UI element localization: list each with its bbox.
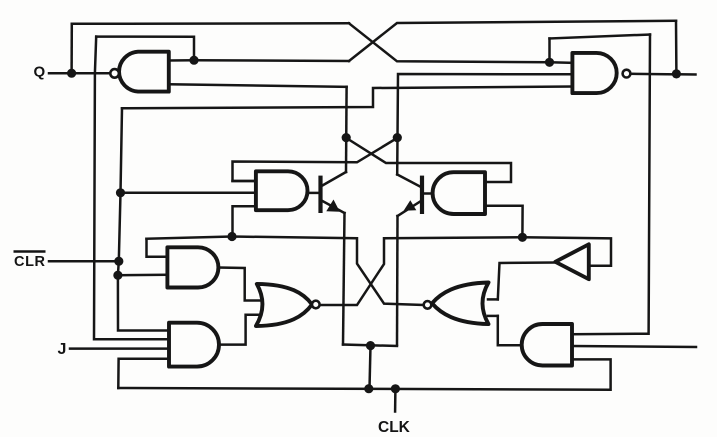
node dot left collector	[342, 133, 351, 142]
wire cross diagonal right-to-left	[233, 138, 398, 181]
svg-text:CLK: CLK	[378, 419, 411, 436]
node dot emitter join	[366, 341, 375, 350]
wire Q output lead	[49, 72, 111, 75]
nor N1 (left, faces right)	[256, 284, 312, 326]
node dot right collector	[393, 133, 402, 142]
node Q junction dot	[67, 69, 76, 78]
wire U2 middle input vertical	[397, 74, 572, 175]
wire G6 output to NOR N1 top input	[218, 268, 262, 301]
wire long right vertical down to gate G7	[572, 35, 650, 335]
label Q	[34, 64, 46, 81]
wire feedback line to right vertical	[550, 35, 651, 39]
transistor Q1 emitter	[322, 201, 345, 214]
wire G7 middle input (K lead)	[572, 346, 696, 347]
node dot G5 input / inverter line	[518, 233, 527, 242]
wire G4 output to transistor Q1 base	[307, 192, 320, 195]
transistor Q2 collector	[397, 175, 421, 188]
wire NAND2 output from bubble	[630, 73, 676, 76]
nand U1 (output Q, faces left)	[119, 52, 169, 92]
node dot NAND2 output	[672, 69, 681, 78]
wire left long vertical (Qbar net) down to gate G8	[94, 37, 169, 340]
node dot rail emitter join	[364, 384, 373, 393]
svg-text:Q: Q	[34, 64, 46, 81]
wire slave feedback left (from NOR N2)	[147, 237, 423, 305]
node dot NAND2 top input	[545, 58, 554, 67]
wire J input lead	[70, 347, 169, 350]
nand U2 (output Qbar, faces right)	[572, 53, 616, 93]
wire collector vertical left	[345, 87, 348, 172]
wire G6 top input wrap	[147, 239, 168, 257]
transistor Q2 base bar	[420, 176, 424, 214]
transistor Q1 base bar	[318, 176, 322, 213]
label CLK	[378, 419, 411, 436]
transistor Q2 emitter	[398, 201, 422, 216]
wire U1 bottom input to master collector vertical	[169, 84, 347, 87]
wire NAND1 top input line	[169, 59, 349, 62]
wire crossover diagonal Qbar up to top rail	[349, 21, 676, 61]
wire N1 bottom input from G8 output	[219, 315, 260, 345]
transistor Q1 collector	[322, 172, 347, 186]
wire G4 bottom input wrap down	[233, 206, 256, 236]
node dot G4 middle input	[116, 188, 125, 197]
wire emitters joining bar	[343, 345, 397, 347]
wire slave feedback right (from NOR N1)	[321, 237, 612, 305]
wire clear net vertical	[118, 108, 169, 330]
node dot G4 bottom input / NOR feedback	[227, 232, 236, 241]
wire clock rail	[118, 359, 610, 389]
and G6 (clear gate)	[167, 247, 218, 287]
node dot rail CLK	[391, 384, 400, 393]
bubble U2 output	[623, 70, 631, 78]
wire G4 middle input	[121, 192, 256, 195]
wire G5 output to transistor Q2 base	[422, 192, 433, 195]
wire G6 bottom input	[118, 274, 167, 277]
and G7 (K gate, faces left)	[522, 324, 572, 366]
transistor Q2 emitter arrow	[404, 200, 417, 211]
transistor Q1 emitter arrow	[326, 200, 340, 212]
wire INV1 output to N2 top input	[498, 263, 556, 300]
wire Q1 emitter down	[343, 213, 345, 345]
node dot NAND1 top input	[189, 56, 198, 65]
wire right rail down to NAND2 output	[675, 21, 678, 73]
and G5 (master right, faces left)	[433, 172, 485, 214]
node dot CLR junction lower	[113, 271, 122, 280]
node dot CLR junction upper	[114, 257, 123, 266]
wire N2 bottom input stub	[488, 315, 498, 318]
wire CLK lead	[394, 389, 397, 412]
bubble U1 output	[110, 69, 119, 78]
wire CLR input lead	[49, 260, 119, 263]
wire Q feedback up to top rail	[70, 24, 73, 73]
wire crossover diagonal Q down to NAND2 input	[349, 23, 572, 63]
wire N2 top input stub	[488, 298, 498, 301]
wire cross diagonal left-to-right	[346, 138, 511, 182]
svg-text:J: J	[58, 341, 67, 358]
wire U2 bottom input long line	[122, 87, 572, 109]
wire inner feedback left	[96, 37, 194, 61]
wire Q2 emitter down	[396, 216, 399, 345]
wire Qbar stub	[676, 73, 695, 76]
wire emitter join down to clock rail	[370, 346, 371, 389]
and G4 (master left)	[256, 171, 308, 210]
wire NAND2 input up to feedback line	[548, 39, 551, 63]
wire G7 output to N2 bottom input	[498, 316, 522, 345]
label CLR with overline	[14, 252, 46, 271]
wire G4 top input wrap	[233, 180, 256, 183]
wire G8 bottom input from clock rail	[118, 359, 169, 388]
wire G5 bottom input down to NOR line	[485, 206, 523, 238]
label J	[58, 341, 67, 358]
wire top rail Q to crossover	[72, 22, 349, 25]
svg-text:CLR: CLR	[14, 254, 46, 270]
nor N2 (right, faces left)	[432, 283, 489, 325]
bubble N2 output	[424, 301, 432, 309]
inverter INV1 (points left)	[555, 244, 589, 279]
bubble N1 output	[312, 301, 320, 309]
and G8 (J gate)	[169, 323, 219, 367]
